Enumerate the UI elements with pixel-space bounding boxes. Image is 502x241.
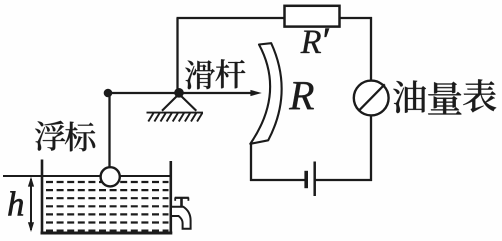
slider rod (lever) <box>104 92 252 94</box>
wire: float rod from lever left end down to float <box>108 93 110 168</box>
junction dot: pivot <box>174 88 184 98</box>
fulcrum triangle <box>162 94 196 111</box>
label: R rheostat value <box>289 82 314 109</box>
label: 油量表 (oil gauge) <box>393 80 426 113</box>
oil surface line (extends left for h reference) <box>3 175 171 177</box>
junction dot: lever left end / float rod <box>104 89 113 98</box>
wire: bottom rail left segment (rheostat to battery) <box>250 179 306 181</box>
label: 滑杆 (slider rod) <box>185 60 215 89</box>
wire: top rail from pivot branch to right branch <box>177 17 373 19</box>
tank right wall <box>170 161 173 233</box>
meter: oil-gauge circle <box>354 81 389 116</box>
wire: right branch down from top rail to meter <box>370 17 372 81</box>
battery negative plate (short thick) <box>304 171 308 188</box>
label: 浮标 (float) <box>35 121 65 151</box>
tank left wall <box>41 160 44 234</box>
resistor R' <box>285 6 340 27</box>
fulcrum ground hatching <box>147 113 204 122</box>
h depth double arrow <box>28 177 34 232</box>
tank bottom <box>41 232 173 235</box>
slider rod arrowhead <box>250 90 261 96</box>
wire: vertical from rheostat R bottom end down to bottom rail <box>250 144 252 181</box>
wire: bottom rail right segment (battery to meter branch) <box>315 179 373 181</box>
wire: vertical from pivot up to top rail <box>176 18 178 93</box>
faucet (tap) on tank <box>172 198 191 229</box>
rheostat R: curved resistive strip <box>250 43 281 144</box>
battery positive plate (tall thin) <box>313 162 316 197</box>
oil liquid dashes <box>46 182 169 231</box>
wire: from meter bottom down to bottom rail <box>370 115 372 181</box>
float (buoy) circle <box>101 167 120 186</box>
label: R' fixed resistor value <box>300 31 321 53</box>
meter: diagonal needle line <box>359 84 385 111</box>
label: h oil depth <box>8 191 23 215</box>
